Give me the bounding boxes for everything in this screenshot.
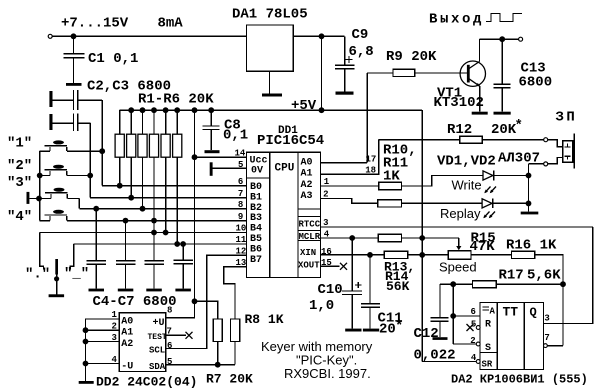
svg-text:A1: A1 <box>121 328 133 339</box>
wire: +U node to R7 <box>195 301 218 319</box>
resistor R1 <box>115 110 124 186</box>
capacitor C9 <box>335 36 354 91</box>
svg-text:B4: B4 <box>250 224 262 235</box>
wire: R17 node down to pins 6/2 <box>452 284 454 344</box>
svg-text:Speed: Speed <box>439 260 477 275</box>
node: A1 gnd junction <box>83 327 89 333</box>
node: TEST nc cross <box>186 332 193 339</box>
node: C5 on B3 <box>123 218 129 224</box>
svg-text:"3": "3" <box>7 175 32 191</box>
wire: B0 row pin6 <box>102 185 246 187</box>
svg-text:"4": "4" <box>7 209 32 225</box>
resistor R16 <box>512 251 564 345</box>
svg-text:XOUT: XOUT <box>298 260 320 270</box>
svg-text:Write: Write <box>452 178 482 193</box>
capacitor C3 <box>49 114 90 132</box>
svg-text:R12: R12 <box>447 122 472 138</box>
node: collector junction <box>499 36 505 42</box>
ground: DA1 <box>262 71 282 96</box>
wire: +5V drop to rail <box>321 36 323 110</box>
svg-text:VD1,VD2: VD1,VD2 <box>437 154 496 170</box>
wire: buttons common bus <box>39 151 41 220</box>
wire: MCLR pin4 row <box>321 237 379 239</box>
regulator DA1 78L05 <box>247 25 294 71</box>
node: R16/R17/pin7 junction <box>560 281 566 287</box>
svg-text:B2: B2 <box>250 203 262 214</box>
wire: A0 pin17 to R9 <box>321 162 368 164</box>
svg-text:4: 4 <box>112 355 118 365</box>
LED VD1 (Write) <box>483 171 529 194</box>
node: C11 junction <box>367 252 373 258</box>
svg-text:"_": "_" <box>64 266 89 282</box>
svg-text:B0: B0 <box>250 182 262 193</box>
svg-text:Q: Q <box>530 306 537 320</box>
wire: DD2 pin4 -U <box>86 363 120 365</box>
node: btn2 junction <box>87 173 93 179</box>
svg-text:1: 1 <box>112 310 118 320</box>
wire: +5V to 555 pin4 <box>422 361 477 363</box>
connector ЗП phone jack <box>563 134 574 169</box>
svg-text:SR: SR <box>482 359 493 369</box>
wire: input rail to DA1 <box>53 35 247 37</box>
node: pin7 circle <box>544 344 548 348</box>
wire: A2 pin1 to R10 <box>321 185 379 187</box>
node: pin6 junction <box>450 313 456 319</box>
svg-text:MCLR: MCLR <box>299 232 321 242</box>
svg-text:+U: +U <box>153 318 165 329</box>
wire: SDA row <box>166 364 235 366</box>
node: rail junctions <box>128 107 324 113</box>
wire: B7 pin13 to R8 <box>224 267 247 319</box>
ground: LED/jack <box>521 212 539 215</box>
node: R4 on B3 <box>151 218 157 224</box>
node: btn1 junction <box>99 148 105 154</box>
node: R2 on B1 <box>128 195 134 201</box>
svg-text:C4-C7 6800: C4-C7 6800 <box>93 294 177 310</box>
svg-text:20: 20 <box>379 322 396 338</box>
resistor R7 <box>213 319 222 365</box>
node: A2 gnd junction <box>83 339 89 345</box>
wire: DD2 pin3 A2 <box>86 341 120 343</box>
node: R3 on B2 <box>140 206 146 212</box>
svg-text:20K: 20K <box>491 122 517 138</box>
ground: VT1 emitter <box>472 112 488 115</box>
wire: 555 pin7 <box>547 345 563 347</box>
wire: 555 pin2 <box>453 343 476 345</box>
svg-text:XIN: XIN <box>300 248 316 258</box>
transistor VT1 KT3102 <box>460 39 519 112</box>
potentiometer R15 <box>448 238 511 259</box>
capacitor C8 <box>203 110 220 150</box>
wire: R10 to Write LED <box>402 176 484 187</box>
node: +U / R7 junction <box>192 298 198 304</box>
wire: DD2 +U pin8 <box>166 301 195 318</box>
node: R13/+5V junction <box>419 235 425 241</box>
IC DD1 PIC16C54 <box>247 152 321 277</box>
svg-text:RTCC: RTCC <box>299 220 321 230</box>
svg-text:C1 0,1: C1 0,1 <box>88 51 138 67</box>
pushbutton "1" <box>40 140 102 151</box>
wire: R13 to +5V <box>402 237 459 239</box>
wire: B6 pin12 to SCL <box>166 255 247 348</box>
paddle lever common <box>54 259 59 294</box>
node: output terminal <box>519 37 523 41</box>
wire: A3 pin2 to R11 <box>321 199 378 204</box>
svg-text:".": "." <box>25 267 50 283</box>
svg-text:A0: A0 <box>301 158 313 169</box>
wire: dot contact branch <box>40 233 44 270</box>
wire: +5V rail <box>120 109 423 111</box>
node: C10 junction <box>349 235 355 241</box>
node: R6 on B5 <box>174 241 180 247</box>
node: R5 on B4 <box>163 230 169 236</box>
resistor R13 <box>378 234 401 241</box>
svg-text:*: * <box>515 118 523 134</box>
node: Ucc pin14 junction <box>192 154 198 160</box>
svg-text:R1-R6 20K: R1-R6 20K <box>138 92 214 108</box>
svg-text:3: 3 <box>112 333 117 343</box>
svg-text:8mA: 8mA <box>158 16 184 32</box>
wire: B3 row pin9 <box>67 220 247 222</box>
svg-text:SCL: SCL <box>149 346 165 356</box>
svg-text:6800: 6800 <box>519 75 553 91</box>
resistor R3 <box>138 110 147 209</box>
wire: pin5 0V <box>213 167 247 169</box>
svg-text:+7...15V: +7...15V <box>61 16 129 32</box>
svg-text:2: 2 <box>470 336 475 346</box>
ground: buttons common bar <box>27 192 40 204</box>
svg-text:A3: A3 <box>301 191 313 202</box>
capacitor C13 <box>494 39 511 112</box>
ground: C1 <box>66 83 82 86</box>
waveform symbol <box>486 14 522 22</box>
svg-text:R17: R17 <box>499 268 524 284</box>
svg-text:RX9CBI. 1997.: RX9CBI. 1997. <box>284 366 371 381</box>
svg-text:"1": "1" <box>7 136 32 152</box>
svg-text:+5V: +5V <box>291 98 317 114</box>
svg-text:5: 5 <box>238 160 243 170</box>
wire: B4 row pin10 <box>40 232 247 234</box>
ground: paddle <box>49 294 65 297</box>
capacitor C10 <box>342 238 362 329</box>
svg-text:SDA: SDA <box>149 362 166 372</box>
svg-text:R8 1K: R8 1K <box>245 312 284 327</box>
node: bus btn2 <box>37 173 43 179</box>
svg-text:7: 7 <box>544 333 549 343</box>
node: -U gnd junction <box>83 361 89 367</box>
svg-text:B7: B7 <box>250 255 262 266</box>
node: replay cathode <box>526 201 532 207</box>
svg-text:0,022: 0,022 <box>414 348 456 364</box>
ground: C9 <box>336 92 354 95</box>
node: R1 on B0 <box>117 183 123 189</box>
node: C4 on B2 <box>93 206 99 212</box>
node: write cathode <box>526 173 532 179</box>
wire: DD2 TEST pin7 <box>166 334 186 336</box>
svg-text:B1: B1 <box>250 192 262 203</box>
node: common bar on bus <box>36 196 42 202</box>
node: +7...15V input terminal <box>48 34 52 38</box>
resistor R6 <box>173 110 182 244</box>
svg-text:A0: A0 <box>121 317 133 328</box>
node: R17/555 junction <box>450 281 456 287</box>
svg-text:TEST: TEST <box>148 333 167 342</box>
wire: +5V feed down to DD2 <box>194 110 196 301</box>
svg-text:7: 7 <box>167 327 172 337</box>
ground: 0V bar <box>210 162 213 176</box>
node: jack sleeve terminal <box>544 162 548 166</box>
label =A cell <box>483 306 496 316</box>
svg-text:0V: 0V <box>251 166 263 177</box>
svg-text:8: 8 <box>167 306 172 316</box>
svg-text:56K: 56K <box>386 279 410 294</box>
wire: jack sleeve <box>548 158 563 164</box>
resistor R9 <box>367 69 467 76</box>
wire: DA1 output <box>293 35 345 37</box>
ground: C8 <box>205 150 220 153</box>
wire: R14 to R15 <box>408 254 448 256</box>
wire: jack sleeve to LED ground <box>529 163 544 165</box>
svg-text:1K: 1K <box>383 169 400 185</box>
svg-text:B3: B3 <box>250 213 262 224</box>
capacitor C12 <box>431 284 449 337</box>
wire: RTCC to 555 pin3 <box>544 227 593 324</box>
wire: DD2 pin1 A0 <box>86 319 120 381</box>
wire: B1 row pin7 <box>90 197 246 199</box>
pushbutton "2" <box>40 165 90 176</box>
svg-text:R16 1K: R16 1K <box>506 238 557 254</box>
svg-text:4: 4 <box>471 353 477 363</box>
node: R7 on SDA <box>215 362 221 368</box>
wire: pin14 Ucc <box>195 156 247 158</box>
wire: XOUT pin15 stub <box>321 265 340 267</box>
svg-text:S: S <box>485 343 491 354</box>
node: C6 on B4 <box>151 230 157 236</box>
capacitor C2 <box>49 90 102 110</box>
svg-text:1,0: 1,0 <box>309 298 334 314</box>
pushbutton "3" <box>39 188 79 209</box>
wire: DD2 pin2 A1 <box>86 329 120 331</box>
capacitor C6 <box>144 233 164 292</box>
resistor R14 <box>384 251 407 258</box>
svg-text:B6: B6 <box>250 244 262 255</box>
wire: R9 to A0 <box>366 73 368 163</box>
capacitor C5 <box>116 221 136 292</box>
svg-text:C12: C12 <box>414 326 439 342</box>
ground: C12 <box>433 337 448 340</box>
svg-text:R7 20K: R7 20K <box>206 372 253 387</box>
capacitor C1 <box>64 36 85 83</box>
wire: +5V drop right side <box>421 110 423 361</box>
svg-text:0,1: 0,1 <box>223 128 248 144</box>
svg-text:R: R <box>485 320 491 331</box>
LED VD2 (Replay) <box>482 199 528 219</box>
node: pin5 circle <box>476 326 480 330</box>
node: jack tip terminal <box>544 138 548 142</box>
node: XOUT nc cross <box>340 263 347 270</box>
svg-text:"2": "2" <box>7 158 32 174</box>
svg-text:6: 6 <box>471 307 476 317</box>
wire: R11 to Replay LED <box>402 202 483 204</box>
svg-text:R9 20K: R9 20K <box>386 49 437 65</box>
svg-text:A2: A2 <box>121 339 133 350</box>
capacitor C4 <box>87 209 107 292</box>
ground: C11 <box>363 329 379 332</box>
resistor R17 <box>440 281 563 288</box>
svg-text:TT: TT <box>503 305 519 320</box>
wire: jack tip <box>548 140 563 147</box>
wire: dash contact branch <box>70 244 74 270</box>
svg-text:A: A <box>490 306 496 316</box>
svg-text:6,8: 6,8 <box>349 44 374 60</box>
svg-text:-U: -U <box>121 361 133 372</box>
svg-text:PIC16C54: PIC16C54 <box>257 133 324 149</box>
svg-text:B5: B5 <box>250 234 262 245</box>
node: junction input/C1 <box>71 33 77 39</box>
wire: LED cathodes to ground <box>528 164 530 212</box>
node: pin2 circle <box>476 342 480 346</box>
svg-text:ЗП: ЗП <box>556 110 578 126</box>
svg-text:DA2 КР1006ВИ1 (555): DA2 КР1006ВИ1 (555) <box>451 373 588 387</box>
ground: C13 <box>494 112 511 115</box>
resistor R12 <box>379 136 544 143</box>
wire: B2 row pin8 <box>79 208 246 210</box>
svg-text:5,6K: 5,6K <box>527 268 561 284</box>
resistor R2 <box>127 110 136 198</box>
svg-text:14: 14 <box>235 149 246 159</box>
svg-text:CPU: CPU <box>275 163 295 175</box>
resistor R8 <box>231 319 240 365</box>
ground: C10 <box>345 329 361 332</box>
svg-text:Выход: Выход <box>429 12 484 28</box>
svg-text:DD2 24C02(04): DD2 24C02(04) <box>96 375 197 390</box>
svg-text:C10: C10 <box>318 282 343 298</box>
resistor R4 <box>149 110 158 232</box>
wire: C3/btn2 vertical to B1 <box>89 123 91 198</box>
pushbutton "4" <box>40 210 67 221</box>
timer DA2 КР1006ВИ1 (555) <box>480 303 544 370</box>
svg-text:KT3102: KT3102 <box>434 95 484 111</box>
svg-text:*: * <box>395 319 403 335</box>
svg-text:DA1 78L05: DA1 78L05 <box>232 7 308 23</box>
svg-text:A2: A2 <box>301 180 313 191</box>
pin 5 nc cross <box>467 324 474 331</box>
svg-text:Replay: Replay <box>440 206 481 221</box>
resistor R11 <box>378 200 402 207</box>
resistor R5 <box>161 110 170 232</box>
wire: XIN pin16 row <box>321 254 385 256</box>
wire: RTCC pin3 row <box>321 226 593 228</box>
ground: DD2 <box>79 381 94 384</box>
EEPROM DD2 24C02 <box>119 313 166 372</box>
capacitor C7 <box>173 244 193 291</box>
capacitor C11 <box>361 255 380 329</box>
node: R14/+5V junction <box>419 252 425 258</box>
resistor R10 <box>379 182 402 189</box>
svg-text:2: 2 <box>112 322 117 332</box>
svg-text:C9: C9 <box>352 27 369 43</box>
svg-text:3: 3 <box>544 313 549 323</box>
svg-text:47K: 47K <box>470 239 496 255</box>
wire: A1 pin18 up to R12 <box>321 140 379 175</box>
wire: 555 pin6 <box>453 315 480 317</box>
svg-text:5: 5 <box>471 320 476 330</box>
wire: B5 row pin11 <box>74 243 247 245</box>
svg-text:6: 6 <box>167 341 172 351</box>
node: C7 on B5 <box>180 241 186 247</box>
svg-text:A1: A1 <box>301 169 313 180</box>
node: junction DA1 out / +5V drop <box>319 33 325 39</box>
node: pin4 circle <box>476 360 480 364</box>
wire: C2/btn1 vertical to B0 <box>101 100 103 186</box>
